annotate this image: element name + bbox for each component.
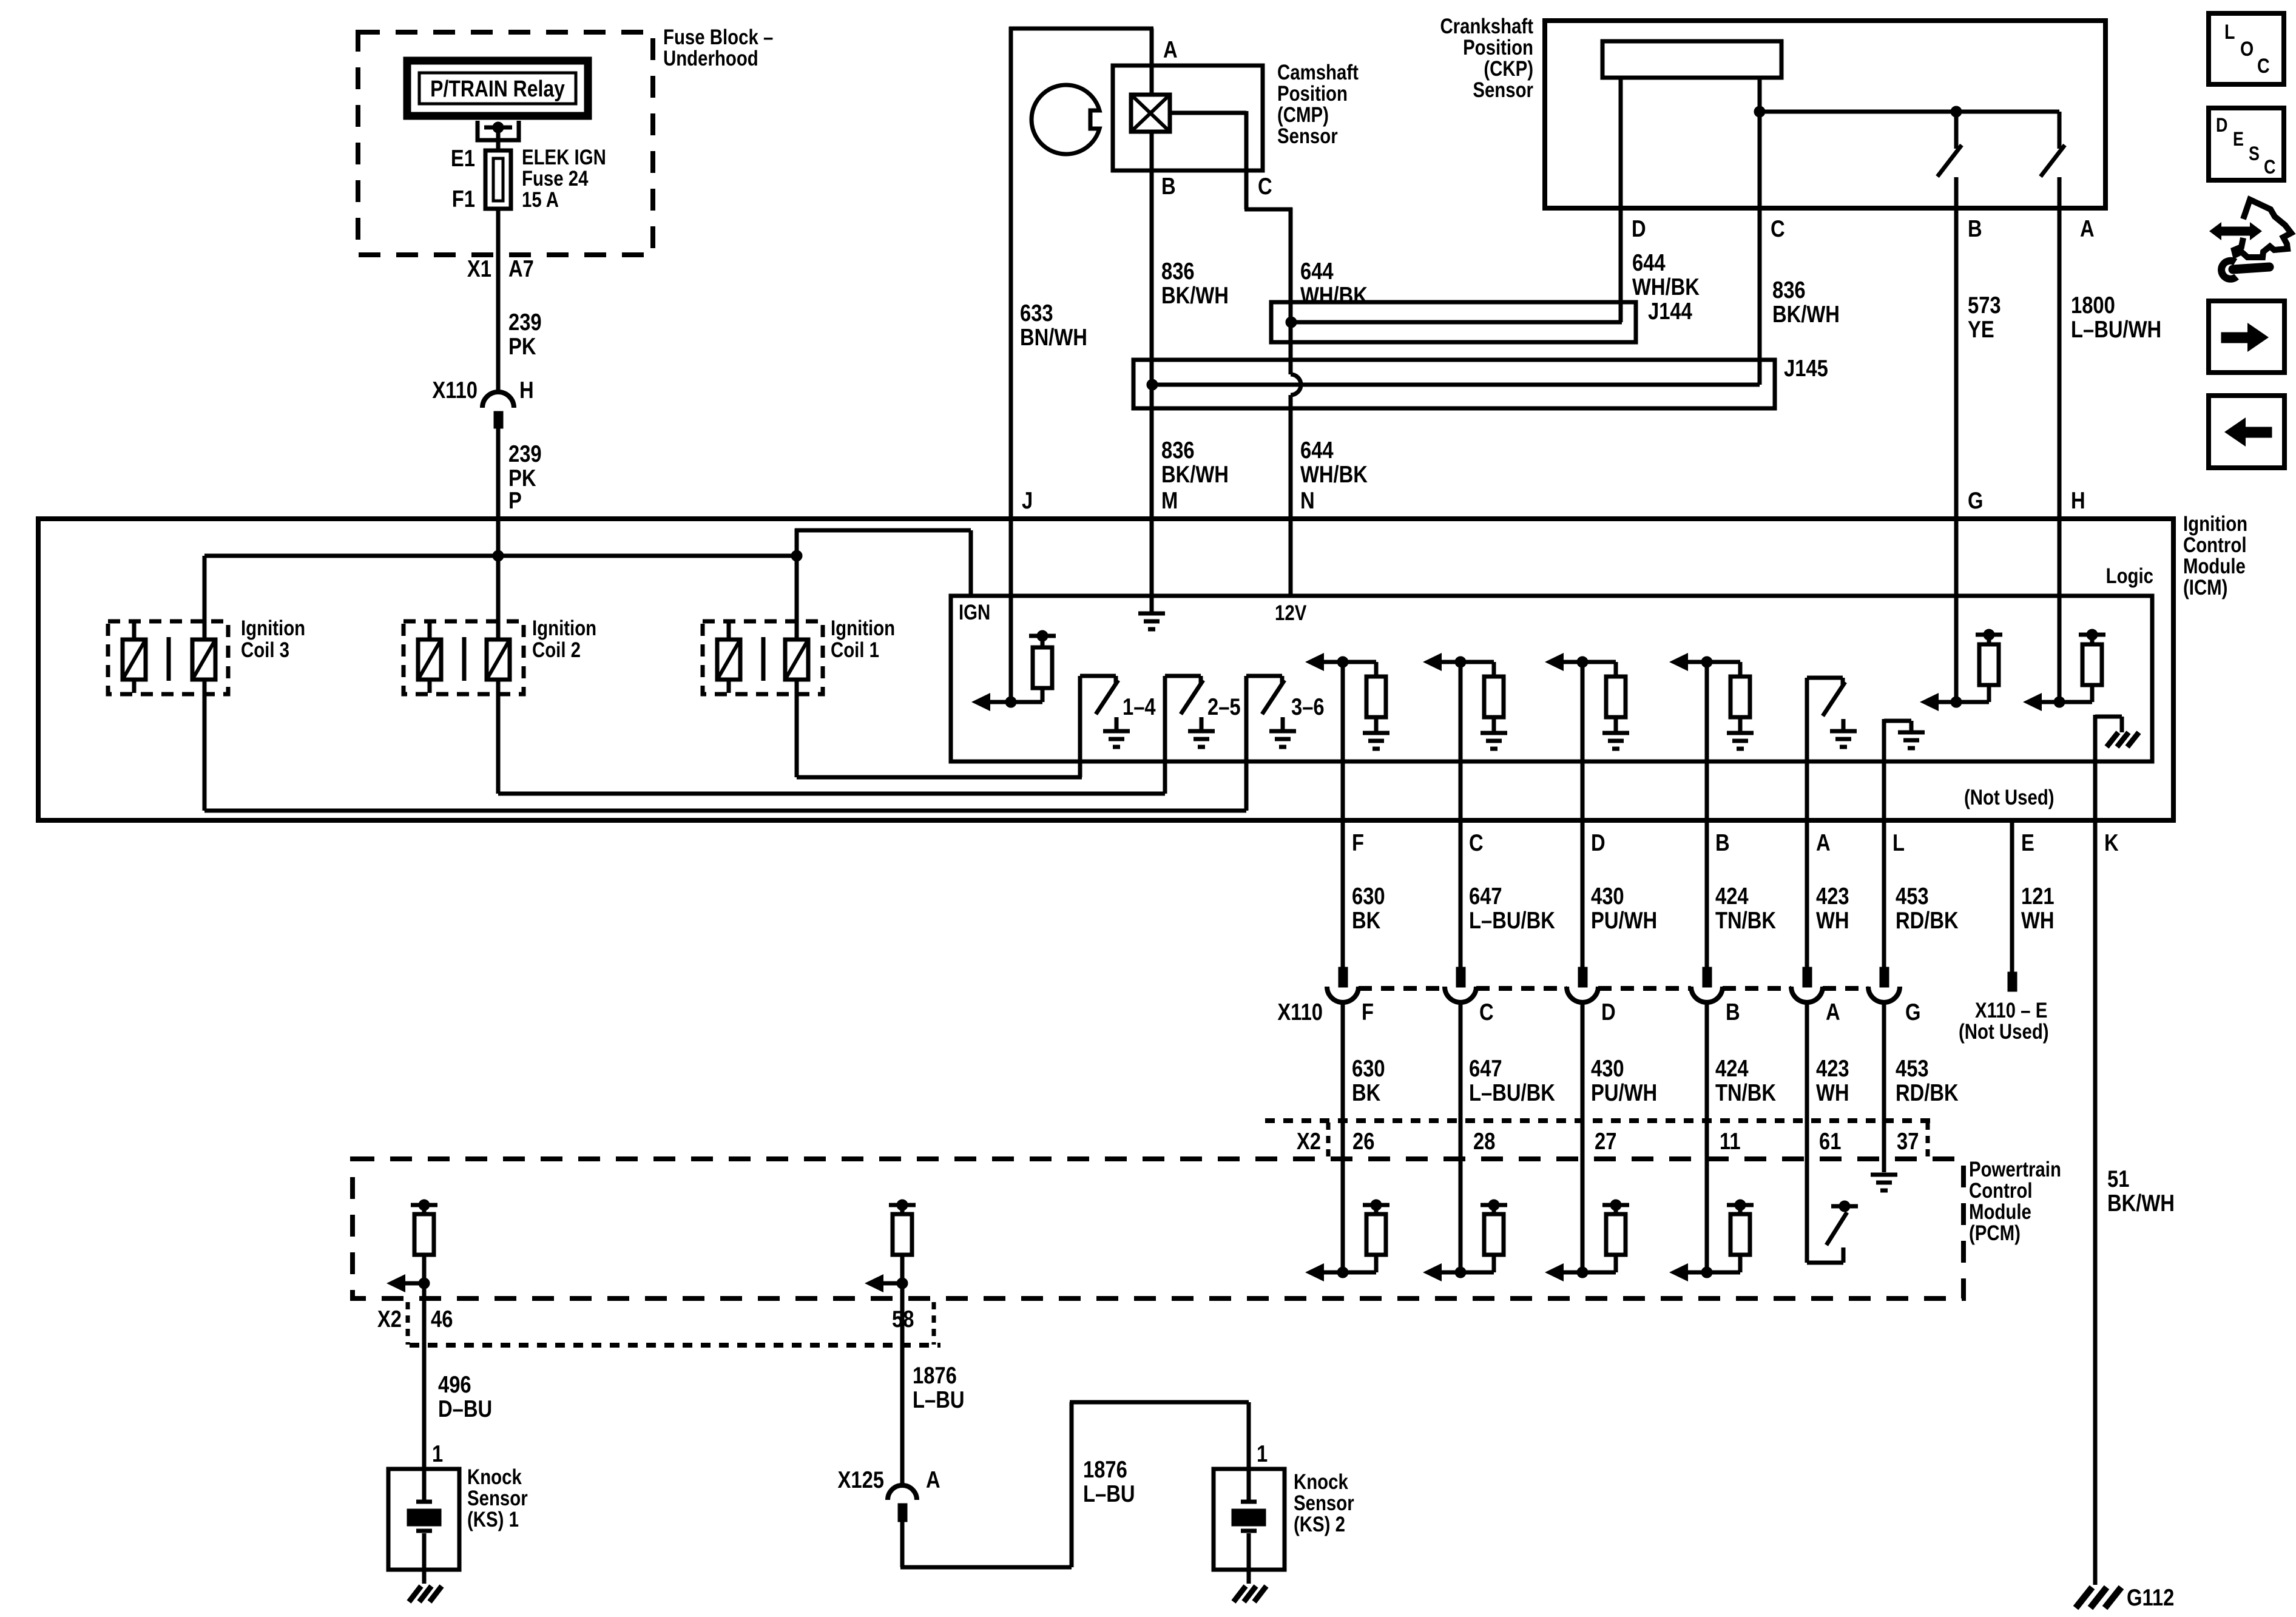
wire CMP C jog to 644 run xyxy=(1170,111,1292,209)
wire label 644 WH/BK at CKP D xyxy=(1632,249,1700,300)
CKP switch to pin B xyxy=(1937,112,1962,702)
PCM knock sensor 1 input cell pin 46 xyxy=(387,1200,437,1469)
CMP sensing element square with X xyxy=(1131,95,1170,132)
wire 644 WH/BK down to ICM pin N with hop over J145 xyxy=(1291,208,1301,596)
wire label 453 RD/BK lower xyxy=(1896,1055,1959,1106)
label Fuse Block - Underhood xyxy=(663,25,773,70)
svg-text:573: 573 xyxy=(1968,291,2001,318)
icon box arrow left xyxy=(2209,396,2284,468)
svg-text:647: 647 xyxy=(1469,1055,1502,1081)
svg-text:X110: X110 xyxy=(432,376,478,403)
label X2 lower xyxy=(377,1305,402,1332)
svg-text:RD/BK: RD/BK xyxy=(1896,906,1959,933)
svg-text:G: G xyxy=(1905,998,1920,1025)
svg-text:Coil 1: Coil 1 xyxy=(831,638,879,662)
IGN cell wire J junction with arrow and pull-up resistor xyxy=(971,519,1056,711)
wire label 630 BK upper xyxy=(1352,882,1385,933)
label Knock Sensor KS 1 xyxy=(467,1465,528,1531)
svg-text:423: 423 xyxy=(1816,1055,1849,1081)
svg-text:15 A: 15 A xyxy=(522,188,559,212)
connector X1 pin A7 labels xyxy=(467,255,534,282)
ignition coil 2 primary winding xyxy=(487,640,510,680)
wire label 423 WH lower xyxy=(1816,1055,1849,1106)
wire label 573 YE xyxy=(1968,291,2001,342)
svg-text:644: 644 xyxy=(1300,257,1334,284)
ICM bottom pin label D xyxy=(1591,829,1606,856)
svg-text:12V: 12V xyxy=(1275,601,1307,625)
svg-text:424: 424 xyxy=(1715,1055,1749,1081)
switch 2-5 with ground xyxy=(1165,676,1215,794)
svg-text:1800: 1800 xyxy=(2071,291,2115,318)
svg-text:(KS) 2: (KS) 2 xyxy=(1294,1513,1345,1536)
ICM driver cell for pin B xyxy=(1669,653,1754,749)
icon vehicle with wrench xyxy=(2209,200,2291,279)
wire below X110 at x=2978 xyxy=(1805,1002,1809,1263)
ICM input cell pull-up for pin G xyxy=(1920,629,2002,711)
svg-text:BK/WH: BK/WH xyxy=(1161,282,1229,308)
svg-text:836: 836 xyxy=(1161,257,1195,284)
ground G112 chassis symbol xyxy=(2076,1587,2121,1608)
svg-text:C: C xyxy=(1479,998,1494,1025)
X2 pin label 11 xyxy=(1720,1127,1741,1154)
svg-text:453: 453 xyxy=(1896,1055,1929,1081)
ICM bottom pin label C xyxy=(1469,829,1484,856)
X2 pin label 28 xyxy=(1473,1127,1495,1154)
relay K1 P/TRAIN Relay box xyxy=(407,61,588,116)
svg-text:WH: WH xyxy=(2021,906,2055,933)
svg-text:E: E xyxy=(2233,129,2244,150)
wire label 647 L-BU/BK upper xyxy=(1469,882,1555,933)
svg-text:Fuse Block –: Fuse Block – xyxy=(663,25,773,49)
wire label 836 BK/WH upper xyxy=(1161,257,1229,308)
ignition coil 3 secondary winding xyxy=(123,623,146,693)
svg-text:Underhood: Underhood xyxy=(663,47,758,70)
wire L 453 from ICM to X110 G xyxy=(1882,719,1886,967)
connector X110 dashed bus xyxy=(1359,986,1868,991)
ICM pin L internal ground xyxy=(1884,721,1925,748)
connector X110 terminal 1 xyxy=(1327,967,1359,1002)
connector X125 pin A xyxy=(838,1466,940,1522)
svg-text:Control: Control xyxy=(1969,1179,2032,1203)
svg-text:Position: Position xyxy=(1463,36,1533,59)
svg-text:D: D xyxy=(1632,215,1646,241)
CKP internal bus to switches xyxy=(1760,106,2059,117)
PCM ground pin 37 xyxy=(1871,1175,1897,1190)
logic box xyxy=(951,596,2152,761)
label X2 xyxy=(1297,1127,1321,1154)
splice J145 836 BK/WH xyxy=(1133,360,1775,408)
ignition coil 3 dashed box xyxy=(108,621,228,694)
ICM pin label H xyxy=(2071,487,2085,513)
svg-text:N: N xyxy=(1300,487,1315,513)
wire coil 2 branch from pin P xyxy=(498,519,1165,794)
svg-text:Camshaft: Camshaft xyxy=(1277,61,1359,84)
label IGN xyxy=(959,601,990,624)
svg-text:430: 430 xyxy=(1591,882,1624,909)
svg-text:239: 239 xyxy=(508,308,542,335)
svg-text:633: 633 xyxy=(1020,299,1053,326)
knock sensor KS2 pin 1 label xyxy=(1257,1440,1268,1467)
svg-text:L: L xyxy=(2224,21,2235,44)
svg-text:28: 28 xyxy=(1473,1127,1495,1154)
connector X110 pin H xyxy=(432,376,533,428)
wire label 836 BK/WH lower xyxy=(1161,436,1229,487)
svg-text:RD/BK: RD/BK xyxy=(1896,1079,1959,1106)
svg-text:PK: PK xyxy=(508,333,536,359)
wire below X110 at x=2813 xyxy=(1705,1002,1709,1272)
ICM bottom pin label B xyxy=(1715,829,1730,856)
ignition coil 2 secondary winding xyxy=(418,623,441,693)
wire below X110 at x=2608 xyxy=(1581,1002,1585,1272)
svg-text:644: 644 xyxy=(1632,249,1666,275)
svg-text:Coil 3: Coil 3 xyxy=(241,638,289,662)
wire label 239 PK lower xyxy=(508,440,542,491)
X2 pin label 37 xyxy=(1897,1127,1919,1154)
wire K 51 BK/WH to G112 xyxy=(2093,715,2098,1585)
svg-text:Ignition: Ignition xyxy=(532,616,596,640)
svg-text:BK/WH: BK/WH xyxy=(2107,1189,2175,1216)
connector X2 separators xyxy=(1328,1122,1928,1159)
ICM driver cell for pin D xyxy=(1545,653,1629,749)
svg-text:836: 836 xyxy=(1161,436,1195,463)
svg-text:J144: J144 xyxy=(1648,297,1692,324)
CKP pin label A xyxy=(2080,215,2095,241)
connector X110 terminal 6 xyxy=(1868,967,1900,1002)
PCM input cell pin 26 xyxy=(1305,1200,1389,1281)
label Ignition Coil 2 xyxy=(532,616,596,662)
wire B from ICM to X110 xyxy=(1705,662,1709,967)
label Knock Sensor KS 2 xyxy=(1294,1470,1354,1536)
connector X2 row for knock sensors xyxy=(408,1302,940,1345)
svg-text:C: C xyxy=(2257,55,2270,78)
svg-text:630: 630 xyxy=(1352,1055,1385,1081)
wire C from ICM to X110 xyxy=(1459,662,1463,967)
svg-text:644: 644 xyxy=(1300,436,1334,463)
svg-text:B: B xyxy=(1968,215,1982,241)
svg-text:Crankshaft: Crankshaft xyxy=(1440,15,1533,38)
ignition coil 3 primary winding xyxy=(192,640,215,680)
wire 239 PK to ICM pin P xyxy=(496,428,501,519)
X2 pin label 26 xyxy=(1352,1127,1374,1154)
svg-text:1: 1 xyxy=(1257,1440,1268,1467)
connector X110 terminal 2 xyxy=(1445,967,1476,1002)
ICM driver cell for pin F xyxy=(1305,653,1389,749)
svg-text:496: 496 xyxy=(438,1371,471,1397)
svg-text:(ICM): (ICM) xyxy=(2183,576,2227,599)
svg-text:Ignition: Ignition xyxy=(2183,512,2247,536)
CMP pin label A xyxy=(1163,36,1178,62)
label Ignition Control Module ICM xyxy=(2183,512,2247,599)
wire below X110 at x=3105 xyxy=(1882,1002,1886,1172)
svg-text:11: 11 xyxy=(1720,1127,1741,1154)
PCM powertrain control module dashed box xyxy=(353,1159,1963,1298)
wire CKP element to pin C 836 xyxy=(1754,78,1765,385)
svg-text:B: B xyxy=(1161,172,1176,199)
ignition coil 2 core xyxy=(462,637,467,681)
svg-text:Position: Position xyxy=(1277,82,1348,106)
svg-text:G112: G112 xyxy=(2127,1584,2174,1610)
wire label 630 BK lower xyxy=(1352,1055,1385,1106)
connector X110 terminal 4 xyxy=(1691,967,1723,1002)
svg-text:A: A xyxy=(1163,36,1178,62)
splice J144 644 WH/BK xyxy=(1271,302,1636,342)
CKP pin label B xyxy=(1968,215,1982,241)
ignition coil 1 secondary winding xyxy=(717,623,740,693)
svg-text:61: 61 xyxy=(1819,1127,1841,1154)
switch 3-6 with ground xyxy=(1246,676,1296,811)
wire label 1876 L-BU lower xyxy=(1083,1456,1135,1507)
X110 pin label F xyxy=(1362,998,1374,1025)
ICM feed to logic top xyxy=(795,528,971,596)
svg-text:A7: A7 xyxy=(508,255,534,282)
wire coil 1 branch xyxy=(797,556,1082,777)
svg-text:Module: Module xyxy=(2183,555,2246,578)
X110 pin label A xyxy=(1826,998,1840,1025)
ICM driver cell for pin C xyxy=(1423,653,1507,749)
wire label 430 PU/WH lower xyxy=(1591,1055,1657,1106)
svg-text:G: G xyxy=(1968,487,1983,513)
svg-text:X2: X2 xyxy=(377,1305,402,1332)
svg-text:A: A xyxy=(2080,215,2095,241)
knock sensor KS1 pin 1 label xyxy=(432,1440,443,1467)
svg-text:TN/BK: TN/BK xyxy=(1715,906,1776,933)
svg-text:C: C xyxy=(1469,829,1484,856)
ICM pin label G xyxy=(1968,487,1983,513)
svg-text:Ignition: Ignition xyxy=(241,616,305,640)
svg-text:Control: Control xyxy=(2183,533,2246,557)
svg-text:Ignition: Ignition xyxy=(831,616,895,640)
CKP pin label D xyxy=(1632,215,1646,241)
ICM input cell pull-up for pin H xyxy=(2023,629,2105,711)
ground at ICM pin M xyxy=(1138,613,1165,629)
svg-text:D: D xyxy=(1601,998,1616,1025)
label J144 xyxy=(1648,297,1692,324)
svg-text:D: D xyxy=(2216,115,2227,137)
PCM input cell pin 28 xyxy=(1423,1200,1507,1281)
ICM pin label N xyxy=(1300,487,1315,513)
knock sensor KS1 xyxy=(388,1469,459,1602)
svg-text:(KS) 1: (KS) 1 xyxy=(467,1508,519,1531)
svg-text:Fuse 24: Fuse 24 xyxy=(522,167,588,191)
svg-text:O: O xyxy=(2240,38,2254,61)
svg-text:D: D xyxy=(1591,829,1606,856)
wire below X110 at x=2407 xyxy=(1459,1002,1463,1272)
CKP sensing element bar xyxy=(1602,41,1781,78)
svg-text:C: C xyxy=(1771,215,1785,241)
wire below X110 at x=2213 xyxy=(1341,1002,1345,1272)
svg-text:423: 423 xyxy=(1816,882,1849,909)
svg-text:(CKP): (CKP) xyxy=(1484,57,1533,81)
pin label F1 xyxy=(452,185,475,212)
svg-text:X2: X2 xyxy=(1297,1127,1321,1154)
svg-text:(Not Used): (Not Used) xyxy=(1964,786,2055,809)
wire CKP element to pin D xyxy=(1619,78,1623,322)
svg-text:58: 58 xyxy=(892,1305,914,1332)
svg-text:239: 239 xyxy=(508,440,542,467)
label 12V xyxy=(1275,601,1307,625)
svg-text:1876: 1876 xyxy=(913,1362,957,1388)
X2 pin label 61 xyxy=(1819,1127,1841,1154)
wire label 633 BN/WH xyxy=(1020,299,1087,350)
icon box arrow right xyxy=(2209,301,2284,373)
fuse block - underhood dashed enclosure xyxy=(358,32,653,255)
wire label 453 RD/BK upper xyxy=(1896,882,1959,933)
svg-text:2–5: 2–5 xyxy=(1207,693,1241,720)
PCM input cell pin 27 xyxy=(1545,1200,1629,1281)
svg-text:PU/WH: PU/WH xyxy=(1591,1079,1657,1106)
label ELEK IGN Fuse 24 15 A xyxy=(522,146,606,212)
ICM pin label M xyxy=(1161,487,1178,513)
svg-text:BK: BK xyxy=(1352,906,1380,933)
ignition coil 1 core xyxy=(761,637,766,681)
svg-text:26: 26 xyxy=(1352,1127,1374,1154)
label 1-4 xyxy=(1123,693,1156,720)
label Ignition Coil 3 xyxy=(241,616,305,662)
knock sensor KS2 xyxy=(1214,1469,1285,1602)
wire D from ICM to X110 xyxy=(1581,662,1585,967)
svg-text:IGN: IGN xyxy=(959,601,990,624)
wire A from ICM to X110 xyxy=(1805,678,1809,967)
wire label 423 WH upper xyxy=(1816,882,1849,933)
svg-text:WH: WH xyxy=(1816,906,1849,933)
svg-text:Sensor: Sensor xyxy=(1473,78,1533,102)
icon box LOC xyxy=(2209,13,2284,84)
svg-text:BK/WH: BK/WH xyxy=(1772,300,1840,327)
wire F from ICM to X110 xyxy=(1341,662,1345,967)
PCM input cell pin 11 xyxy=(1669,1200,1754,1281)
wire label 644 WH/BK lower xyxy=(1300,436,1368,487)
svg-text:L–BU: L–BU xyxy=(913,1386,965,1413)
svg-text:J: J xyxy=(1022,487,1033,513)
label Logic xyxy=(2106,564,2153,588)
ICM bottom pin label L xyxy=(1893,829,1905,856)
wire label 424 TN/BK lower xyxy=(1715,1055,1776,1106)
label Powertrain Control Module PCM xyxy=(1969,1158,2061,1245)
icon box DESC xyxy=(2209,108,2284,180)
svg-text:1876: 1876 xyxy=(1083,1456,1127,1482)
CMP pin label C xyxy=(1258,172,1272,199)
label 2-5 xyxy=(1207,693,1241,720)
wire label 239 PK upper xyxy=(508,308,542,359)
connector X110 terminal 3 xyxy=(1567,967,1598,1002)
wire label 121 WH upper xyxy=(2021,882,2055,933)
wire label 424 TN/BK upper xyxy=(1715,882,1776,933)
label J145 xyxy=(1784,354,1828,381)
ignition coil 1 dashed box xyxy=(703,621,823,694)
svg-text:L–BU/BK: L–BU/BK xyxy=(1469,1079,1555,1106)
svg-text:L–BU/BK: L–BU/BK xyxy=(1469,906,1555,933)
svg-text:WH/BK: WH/BK xyxy=(1300,461,1368,487)
ICM pin K internal chassis ground xyxy=(2095,717,2139,747)
wire fuse to X1-A7 xyxy=(496,209,501,392)
label Crankshaft Position CKP Sensor xyxy=(1440,15,1533,102)
CMP pin label B xyxy=(1161,172,1176,199)
svg-text:424: 424 xyxy=(1715,882,1749,909)
svg-text:Sensor: Sensor xyxy=(1277,124,1338,148)
svg-text:WH/BK: WH/BK xyxy=(1632,273,1700,300)
PCM switch cell pin 61 xyxy=(1807,1201,1858,1263)
ICM bottom pin label K xyxy=(2104,829,2119,856)
svg-text:L: L xyxy=(1893,829,1905,856)
svg-text:F1: F1 xyxy=(452,185,475,212)
svg-text:B: B xyxy=(1726,998,1740,1025)
wire coil 3 branch xyxy=(204,556,1246,811)
svg-text:E: E xyxy=(2021,829,2034,856)
svg-text:S: S xyxy=(2249,143,2260,165)
CKP pin label C xyxy=(1771,215,1785,241)
svg-text:C: C xyxy=(2264,157,2275,178)
svg-text:M: M xyxy=(1161,487,1178,513)
svg-text:BK: BK xyxy=(1352,1079,1380,1106)
label Not Used ICM xyxy=(1964,786,2055,809)
svg-text:YE: YE xyxy=(1968,316,1994,342)
svg-text:ELEK IGN: ELEK IGN xyxy=(522,146,606,169)
svg-text:1–4: 1–4 xyxy=(1123,693,1156,720)
svg-text:PU/WH: PU/WH xyxy=(1591,906,1657,933)
svg-text:121: 121 xyxy=(2021,882,2055,909)
wire J to CMP pin A top run xyxy=(1009,27,1153,519)
svg-text:K: K xyxy=(2104,829,2119,856)
ICM pin label P xyxy=(508,487,522,513)
camshaft reluctor circle xyxy=(1032,85,1099,154)
ICM ignition control module box xyxy=(38,519,2173,820)
ignition coil 3 core xyxy=(167,637,171,681)
svg-text:WH/BK: WH/BK xyxy=(1300,282,1368,308)
svg-text:BK/WH: BK/WH xyxy=(1161,461,1229,487)
X110 pin label D xyxy=(1601,998,1616,1025)
ICM bottom pin label F xyxy=(1352,829,1364,856)
ignition coil 1 primary winding xyxy=(785,640,808,680)
svg-text:37: 37 xyxy=(1897,1127,1919,1154)
ICM bottom pin label E xyxy=(2021,829,2034,856)
label X110-E Not Used xyxy=(1959,999,2049,1044)
wire E stub not used xyxy=(2008,820,2017,991)
svg-text:X125: X125 xyxy=(838,1466,884,1493)
label Ignition Coil 1 xyxy=(831,616,895,662)
X2 pin label 27 xyxy=(1595,1127,1616,1154)
svg-text:(Not Used): (Not Used) xyxy=(1959,1020,2049,1044)
svg-text:D–BU: D–BU xyxy=(438,1395,492,1422)
X110 pin label B xyxy=(1726,998,1740,1025)
svg-text:P: P xyxy=(508,487,522,513)
svg-text:C: C xyxy=(1258,172,1272,199)
svg-text:E1: E1 xyxy=(451,144,475,171)
CMP sensor box xyxy=(1113,66,1263,170)
svg-text:430: 430 xyxy=(1591,1055,1624,1081)
svg-text:L–BU: L–BU xyxy=(1083,1480,1135,1507)
svg-text:X110: X110 xyxy=(1277,998,1323,1025)
wire label 430 PU/WH upper xyxy=(1591,882,1657,933)
svg-text:Logic: Logic xyxy=(2106,564,2153,588)
svg-text:630: 630 xyxy=(1352,882,1385,909)
svg-text:H: H xyxy=(519,376,534,403)
svg-text:X1: X1 xyxy=(467,255,491,282)
svg-text:836: 836 xyxy=(1772,276,1806,303)
svg-text:J145: J145 xyxy=(1784,354,1828,381)
svg-text:3–6: 3–6 xyxy=(1291,693,1325,720)
svg-text:Knock: Knock xyxy=(467,1465,522,1489)
svg-text:X110 – E: X110 – E xyxy=(1975,999,2047,1022)
ICM output switch for pin A xyxy=(1807,678,1857,747)
CKP switch to pin A xyxy=(2041,112,2065,702)
label X110 xyxy=(1277,998,1323,1025)
ICM bottom pin label A xyxy=(1816,829,1831,856)
svg-text:L–BU/WH: L–BU/WH xyxy=(2071,316,2161,342)
svg-text:27: 27 xyxy=(1595,1127,1616,1154)
svg-text:1: 1 xyxy=(432,1440,443,1467)
svg-text:P/TRAIN Relay: P/TRAIN Relay xyxy=(430,76,565,101)
wire CMP A into element xyxy=(1150,29,1154,95)
